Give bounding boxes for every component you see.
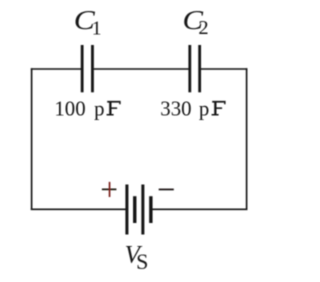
wire right [246,68,248,210]
wire top-right [201,68,248,70]
svg-text:1: 1 [92,19,102,40]
wire top-left [31,68,81,70]
svg-text:2: 2 [198,17,208,39]
wire bottom-left [31,208,126,210]
minus sign [159,189,174,191]
svg-text:330: 330 [160,97,191,120]
value 330 pF [160,97,225,120]
plus sign [102,182,117,197]
svg-text:VS: VS [125,242,149,274]
label C2 [183,5,209,39]
svg-text:p: p [94,97,104,120]
value 100 pF [54,97,120,120]
capacitor C1 [81,45,94,92]
svg-text:100: 100 [54,97,85,120]
label C1 [74,5,102,40]
wire bottom-right [152,208,247,210]
label VS [125,242,149,274]
wire top-middle [94,68,189,70]
capacitor C2 [188,45,201,92]
battery VS [125,185,152,235]
svg-text:p: p [199,97,209,120]
wire left [31,68,33,210]
